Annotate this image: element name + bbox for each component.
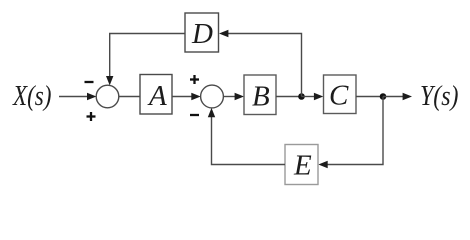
- wire S2 to block B: [224, 96, 237, 98]
- svg-text:X(s): X(s): [12, 80, 51, 112]
- wire node N1 to block C: [302, 96, 317, 98]
- wire node N2 down and left to block E: [325, 97, 383, 165]
- svg-text:C: C: [329, 80, 349, 112]
- svg-text:E: E: [293, 150, 312, 182]
- block D: [185, 13, 219, 52]
- wire block D left and down to S1 top: [110, 34, 185, 79]
- block A: [140, 75, 172, 115]
- svg-text:A: A: [147, 80, 167, 112]
- summing junction S2: [201, 85, 224, 108]
- wire S1 to block A: [119, 96, 140, 98]
- minus sign at S1 top input: [85, 81, 94, 83]
- wire node N2 to output Y(s): [383, 96, 405, 98]
- wire block E left and up to S2 bottom: [212, 115, 286, 165]
- plus sign at S1 left input: [87, 112, 96, 121]
- minus sign at S2 bottom input: [190, 114, 199, 116]
- block E: [285, 145, 318, 185]
- block B: [244, 75, 276, 115]
- node N1 junction dot: [298, 93, 305, 100]
- wire block C to node N2: [356, 96, 383, 98]
- summing junction S1: [96, 85, 119, 108]
- plus sign at S2 left input: [190, 75, 199, 84]
- svg-text:B: B: [252, 81, 270, 113]
- wire block A to summing junction S2: [172, 96, 193, 98]
- svg-text:Y(s): Y(s): [420, 80, 459, 112]
- wire node N1 up and left to block D: [226, 34, 302, 97]
- node N2 junction dot: [380, 93, 387, 100]
- wire block B to node N1: [276, 96, 302, 98]
- svg-text:D: D: [191, 18, 213, 50]
- block C: [324, 75, 357, 114]
- wire X(s) to summing junction S1: [59, 96, 89, 98]
